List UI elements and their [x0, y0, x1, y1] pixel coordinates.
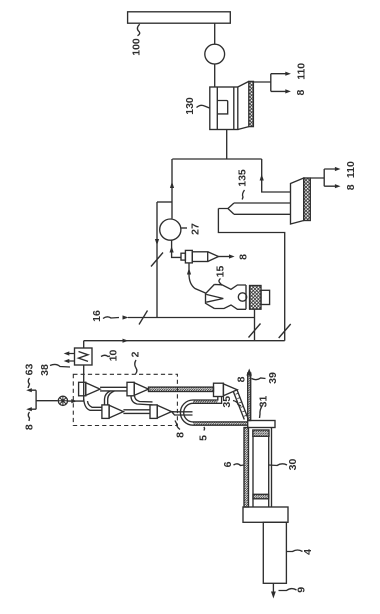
label 8 (right) [345, 184, 357, 190]
svg-text:8: 8 [238, 254, 250, 260]
diagonal pipe 35 to flange [233, 389, 248, 419]
label 5 [198, 427, 210, 441]
motive pipe down to E3 [105, 391, 115, 405]
injector 35 [214, 383, 238, 396]
motive pipe down to E4 [131, 396, 153, 405]
label 27 [181, 223, 201, 235]
feed bracket symbol [26, 388, 36, 411]
riser inner tube 30 [253, 436, 269, 507]
riser bottom coupling [253, 494, 269, 499]
wires 130 to outlet arrows 8 110 (top) [253, 72, 291, 94]
label 6 [222, 461, 244, 467]
riser top coupling [253, 430, 269, 436]
riser standpipe 39 [246, 369, 252, 421]
label 9 [279, 587, 308, 593]
svg-text:100: 100 [131, 38, 143, 56]
fan (crossed circle) [58, 396, 67, 405]
svg-text:8: 8 [175, 432, 187, 438]
label 135 [237, 169, 249, 199]
label 63 [24, 364, 36, 388]
wire lance nose down around to bottom line [218, 209, 290, 341]
feed wire to fan [36, 400, 58, 402]
svg-text:135: 135 [237, 169, 249, 187]
svg-text:110: 110 [296, 63, 308, 80]
riser outer wall right [271, 428, 273, 508]
lance 135 tube [218, 203, 290, 214]
wire down into exchanger 10 [83, 341, 85, 348]
ejector E2 [127, 382, 149, 396]
svg-text:110: 110 [345, 161, 357, 178]
svg-text:38: 38 [39, 364, 51, 376]
label 110 (right) [345, 161, 357, 178]
wire pump 27 down to ejector nozzle [170, 240, 182, 257]
exchanger side arrows [64, 351, 75, 363]
svg-text:2: 2 [130, 351, 142, 357]
vessel 4 [263, 522, 286, 583]
svg-text:10: 10 [108, 350, 120, 362]
burner hatched wall [304, 178, 311, 221]
wire vessel 15 bottom drop [249, 309, 261, 341]
bottom flange [243, 507, 288, 522]
burner diffuser [291, 178, 304, 224]
svg-text:63: 63 [24, 364, 36, 376]
ejector nozzle (stream 8) [181, 250, 219, 263]
unit 130 cone [238, 81, 249, 129]
label 15 [215, 266, 227, 286]
wire blower to unit 130 [214, 64, 216, 87]
jog wire to left line [157, 201, 172, 203]
blower circle [205, 44, 225, 64]
header wire [172, 158, 261, 160]
svg-text:16: 16 [91, 310, 103, 322]
pipe E3 to E4 [123, 410, 150, 414]
tank 100 (long bar) [128, 12, 231, 23]
label 8 (mid) [238, 254, 250, 260]
bottom long wire [84, 339, 285, 343]
svg-text:6: 6 [222, 461, 234, 467]
label 35 [221, 396, 241, 408]
hatched pipe E2 to injector 35 [149, 387, 214, 391]
unit 130 hatched wall [249, 81, 254, 126]
svg-text:27: 27 [190, 223, 202, 235]
unit 130 body [210, 87, 238, 130]
svg-text:8: 8 [345, 184, 357, 190]
svg-text:35: 35 [221, 396, 233, 408]
svg-text:8: 8 [236, 376, 248, 382]
line 16 [123, 311, 255, 325]
ejector E1 [79, 382, 101, 396]
ejector E3 [102, 405, 124, 419]
bayonet jacket (5) outer wall [180, 397, 247, 426]
svg-text:31: 31 [258, 396, 270, 408]
svg-text:130: 130 [184, 97, 196, 115]
svg-text:15: 15 [215, 266, 227, 278]
label 8 (ejector outlet) [175, 421, 187, 438]
wire header down right with up arrow [260, 159, 291, 192]
label 8 (top) [295, 90, 307, 96]
vessel 15 end cap [261, 290, 270, 304]
label 8 (bracket) [23, 412, 35, 430]
arrow stream 8 (mid) [219, 254, 235, 258]
svg-text:9: 9 [296, 587, 308, 593]
label 130 [184, 97, 210, 115]
label 110 (top) [296, 63, 308, 80]
wire exchanger down through ejector 1 [83, 365, 85, 401]
wire ejector to vessel 15 [187, 263, 206, 293]
svg-text:8: 8 [23, 424, 35, 430]
label 31 [258, 396, 270, 418]
wires to outlet arrows 8 110 (right) [310, 167, 340, 188]
outlet pipe E4 into bayonet tube [172, 412, 193, 415]
dashed enclosure 2 [73, 374, 177, 425]
jacket top wall hatch [193, 400, 217, 403]
suction pipe to E3 [84, 399, 102, 410]
label 30 [269, 459, 299, 471]
label 16 [91, 310, 119, 322]
label 39 [252, 372, 280, 384]
ejector E4 [150, 405, 172, 419]
label 8 (standpipe) [236, 376, 248, 382]
pump 27 circle [160, 219, 181, 240]
riser outer wall hatched (6) [244, 428, 249, 508]
vessel 15 body [206, 284, 250, 309]
outlet arrow 9 [271, 583, 276, 598]
label 10 [101, 350, 120, 362]
svg-text:4: 4 [302, 549, 314, 555]
label 100 [131, 24, 143, 56]
wire header down to pump 27 [170, 159, 174, 219]
svg-text:30: 30 [287, 459, 299, 471]
svg-text:39: 39 [267, 372, 279, 384]
jacket bottom wall hatch [193, 422, 247, 425]
riser top flange 31 [248, 421, 275, 428]
heat exchanger 10 [75, 348, 93, 365]
svg-text:8: 8 [295, 90, 307, 96]
label 2 [130, 351, 142, 374]
left vertical line [151, 202, 163, 318]
label 4 [287, 549, 315, 555]
pipe E1 to E2 [100, 387, 127, 391]
wire bar100 to blower [214, 23, 216, 44]
wire 130 bottom to header [226, 130, 228, 160]
vessel 15 hatched section [250, 286, 261, 310]
label 38 [39, 364, 70, 376]
wire fan to ejector battery [68, 399, 84, 403]
svg-text:5: 5 [198, 435, 210, 441]
